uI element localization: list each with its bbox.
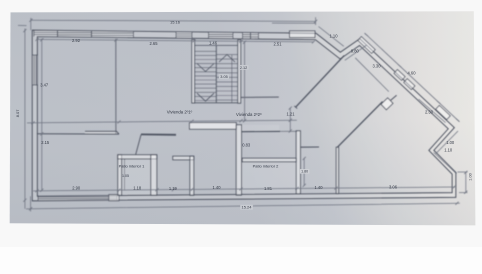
outer wall: [32, 30, 456, 201]
dim bottom 15.24: [26, 196, 460, 211]
svg-text:4.60: 4.60: [408, 71, 417, 76]
dim diag lower 2.30: [419, 99, 446, 122]
svg-text:1.40: 1.40: [315, 185, 324, 190]
svg-text:1.21: 1.21: [287, 112, 296, 117]
wall y134 mid: [141, 133, 176, 135]
window left wall: [32, 55, 38, 85]
door bottom wall: [109, 195, 119, 201]
svg-text:2.30: 2.30: [425, 110, 434, 115]
dim diag upper: [365, 33, 460, 122]
svg-text:3.05: 3.05: [220, 75, 227, 79]
label 1.80: [300, 169, 310, 174]
dim bottom interior: [33, 187, 456, 191]
patio2 interior light: [242, 162, 296, 193]
svg-text:1.40: 1.40: [213, 185, 222, 190]
dim top interior: [37, 39, 314, 42]
hall wall y97: [241, 96, 279, 98]
stair left wall: [192, 40, 195, 103]
dim left 8.07: [18, 25, 27, 208]
stair right wall: [238, 40, 241, 103]
label 2.12: [239, 65, 249, 70]
patio2 right wall: [296, 131, 300, 194]
patio1 interior light: [122, 159, 151, 195]
svg-text:2.15: 2.15: [41, 140, 50, 145]
diagonal D2: [337, 102, 382, 148]
dim zig 1.10: [434, 152, 457, 173]
paper: [10, 11, 476, 225]
svg-text:1.05: 1.05: [122, 174, 129, 178]
stair arrow V1: [197, 64, 214, 72]
landing bar: [190, 123, 237, 130]
dim vert 1.80: [303, 158, 305, 186]
shaft line right of patio2: [300, 146, 319, 148]
wall x240 vertical: [236, 125, 241, 195]
svg-text:1.18: 1.18: [133, 185, 142, 190]
svg-text:Patio interior 2: Patio interior 2: [253, 164, 280, 169]
window box top right: [290, 31, 316, 38]
svg-text:1.00: 1.00: [446, 140, 455, 145]
hook wall: [173, 156, 194, 160]
svg-text:1.81: 1.81: [264, 186, 273, 191]
door leaf patio1: [136, 135, 141, 155]
svg-text:2.90: 2.90: [72, 186, 81, 191]
svg-text:3.30: 3.30: [373, 64, 382, 69]
dim vert 2.12: [244, 42, 246, 122]
label 15.24: [240, 205, 253, 210]
label 3.05: [219, 74, 229, 79]
stair treads left: [195, 51, 217, 100]
dim 3.05 line: [231, 55, 233, 103]
svg-text:1.00: 1.00: [469, 173, 473, 180]
svg-text:Vivienda 2º2º: Vivienda 2º2º: [236, 112, 262, 117]
windows bottom wall: [38, 195, 117, 200]
wall x116 vertical: [115, 39, 117, 134]
wall y131: [242, 130, 280, 132]
diagonal D1: [296, 55, 345, 107]
stair arrow up: [219, 55, 235, 63]
corridor light band: [242, 125, 279, 131]
svg-text:2.65: 2.65: [150, 41, 159, 46]
stair divider: [215, 45, 217, 102]
svg-text:0.80: 0.80: [351, 48, 360, 53]
svg-text:1.10: 1.10: [330, 34, 339, 39]
dim diag lower 3.30: [355, 58, 389, 92]
dim zig 1.00: [436, 131, 458, 154]
dim 1.05 line: [124, 159, 126, 191]
svg-text:Vivienda 2º1º: Vivienda 2º1º: [167, 110, 193, 115]
dim line secondary top right: [272, 17, 316, 25]
svg-text:2.51: 2.51: [274, 42, 283, 47]
svg-text:1.80: 1.80: [301, 170, 308, 174]
stair landing line: [195, 44, 238, 46]
windows diagonal wall: [358, 37, 375, 54]
windows top wall: [34, 30, 58, 36]
wall x336 vertical: [336, 147, 338, 194]
dim vert 3.47/2.15: [41, 39, 43, 191]
wall y134 left: [85, 131, 119, 134]
dim 0.80: [345, 45, 367, 60]
column square: [381, 98, 393, 110]
stair arrow V2: [197, 93, 214, 101]
dim vert right 1.00: [458, 172, 468, 193]
dim chamfer 1.10: [319, 27, 344, 47]
dim top 15.16: [31, 20, 316, 21]
svg-text:Patio interior 1: Patio interior 1: [119, 163, 146, 168]
svg-text:15.24: 15.24: [241, 205, 252, 210]
svg-text:1.19: 1.19: [169, 186, 178, 191]
svg-text:2.92: 2.92: [72, 38, 81, 43]
patio2 top wall: [242, 158, 296, 162]
svg-text:2.12: 2.12: [240, 66, 247, 70]
svg-text:0.83: 0.83: [242, 143, 251, 148]
svg-text:1.10: 1.10: [444, 148, 453, 153]
stair treads right: [216, 55, 238, 101]
stair bottom edge: [195, 102, 238, 104]
dim vert 1.21: [289, 108, 291, 132]
svg-text:15.16: 15.16: [170, 20, 181, 25]
svg-text:3.47: 3.47: [40, 82, 49, 87]
dim mid: [27, 120, 297, 123]
patio1 walls: [118, 155, 122, 196]
svg-text:3.06: 3.06: [389, 185, 398, 190]
svg-text:1.46: 1.46: [209, 40, 218, 45]
svg-text:8.07: 8.07: [15, 109, 20, 118]
